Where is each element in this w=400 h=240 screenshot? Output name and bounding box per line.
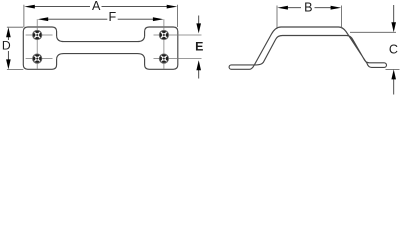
- centerline vertical right screws: [163, 19, 165, 69]
- dimension C extension line bottom: [386, 68, 400, 70]
- dimension C bottom arrowhead: [391, 69, 396, 79]
- dimension B extension line left: [276, 6, 278, 28]
- dimension B line: [282, 7, 301, 9]
- dimension B right arrowhead: [331, 6, 342, 10]
- svg-text:D: D: [2, 39, 11, 53]
- dimension A line: [29, 6, 90, 8]
- svg-text:F: F: [109, 10, 117, 24]
- dimension D extension line bottom: [7, 68, 23, 70]
- dimension A extension line left: [23, 5, 25, 27]
- screw top-left: [33, 30, 42, 39]
- dimension F right arrowhead: [153, 17, 164, 21]
- left end plate outline: [23, 27, 56, 69]
- right end plate outline: [145, 27, 178, 69]
- svg-text:E: E: [195, 40, 203, 54]
- svg-text:B: B: [304, 1, 312, 15]
- dimension B left arrowhead: [277, 6, 288, 10]
- dimension E top arrowhead: [196, 23, 201, 33]
- centerline horizontal bottom-left screw: [26, 58, 53, 60]
- dimension E bottom arrowhead: [196, 60, 201, 70]
- dimension D top arrowhead: [6, 27, 11, 37]
- centerline vertical left screws: [36, 19, 38, 69]
- dimension E bottom arrow shaft: [198, 68, 200, 79]
- handle bar top edge with fillets: [57, 36, 145, 41]
- centerline horizontal bottom-right screw (extends to E): [154, 58, 202, 60]
- dimension A extension line right: [177, 5, 179, 27]
- dimension C top arrow shaft: [393, 5, 395, 26]
- dimension D extension line top: [7, 26, 23, 28]
- screw bottom-left: [33, 54, 42, 63]
- screw top-right: [159, 30, 168, 39]
- dimension C top arrowhead: [391, 22, 396, 32]
- dimension D line: [7, 33, 9, 41]
- dimension A right arrowhead: [167, 5, 178, 9]
- handle bar bottom edge with fillets: [57, 54, 145, 59]
- dimension D bottom arrowhead: [6, 59, 11, 69]
- dimension B extension line right: [341, 6, 343, 29]
- screw bottom-right: [159, 54, 168, 63]
- dimension C bottom arrow shaft: [393, 77, 395, 95]
- hat profile outline (side view): [229, 27, 386, 69]
- dimension F left arrowhead: [38, 17, 49, 21]
- dimension E top arrow shaft: [198, 16, 200, 27]
- dimension A left arrowhead: [24, 5, 35, 9]
- dimension C extension line top: [350, 31, 396, 33]
- centerline horizontal top-left screw: [26, 34, 53, 36]
- svg-text:C: C: [389, 42, 398, 56]
- centerline horizontal top-right screw (extends to E): [154, 34, 202, 36]
- dimension F line: [43, 18, 107, 20]
- svg-text:A: A: [92, 0, 101, 13]
